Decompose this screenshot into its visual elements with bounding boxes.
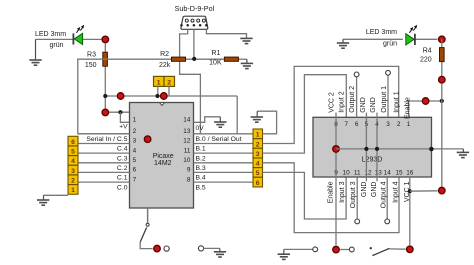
- resistor R3 150: [103, 52, 108, 66]
- wire Sub-D pin3 to junction: [193, 29, 195, 59]
- wire net B.4 to Input 3: [263, 172, 347, 219]
- wire Picaxe pin 8 B.5: [194, 181, 254, 183]
- node red dot VCC1 bottom: [407, 246, 414, 253]
- svg-text:Output 4: Output 4: [380, 181, 387, 208]
- svg-text:B.0 / Serial Out: B.0 / Serial Out: [196, 136, 242, 143]
- wire GND horizontal to ground: [336, 148, 463, 150]
- terminal switch S1: [164, 246, 169, 251]
- svg-text:13: 13: [183, 128, 191, 135]
- svg-text:C.0: C.0: [117, 184, 128, 191]
- node red dot rail mid: [439, 76, 446, 83]
- svg-text:8: 8: [187, 176, 191, 183]
- wire pin14 0V to ground: [194, 117, 221, 123]
- svg-text:L293D: L293D: [362, 157, 383, 164]
- svg-text:10: 10: [183, 157, 191, 164]
- svg-text:12: 12: [364, 170, 372, 177]
- ground bottom right side: [278, 254, 290, 259]
- resistor R1 10K: [224, 57, 238, 61]
- svg-text:R4: R4: [423, 47, 432, 54]
- ground at LED2: [337, 43, 349, 48]
- svg-text:2: 2: [133, 128, 137, 135]
- node red dot LED1/R3: [102, 36, 109, 43]
- wire Enable2 internal vertical pin8-pin9: [335, 117, 337, 245]
- svg-text:7: 7: [133, 176, 137, 183]
- svg-text:1: 1: [133, 117, 137, 124]
- wire Picaxe pin 6 C.1: [78, 171, 129, 173]
- svg-text:4: 4: [71, 158, 75, 165]
- svg-text:Enable: Enable: [328, 181, 335, 203]
- svg-text:0V: 0V: [196, 125, 205, 132]
- svg-text:+V: +V: [119, 124, 128, 131]
- junction GND pin4: [375, 147, 379, 151]
- wire +V bus: [105, 111, 147, 113]
- node red dot header bus left: [117, 93, 124, 100]
- svg-text:B.4: B.4: [196, 175, 206, 182]
- resistor R4 220: [440, 48, 445, 62]
- wire net B.1 to Input 1: [263, 66, 399, 143]
- svg-text:LED 3mm: LED 3mm: [35, 31, 66, 38]
- junction enable rail: [440, 99, 444, 103]
- IC U2 L293D body: [313, 117, 432, 177]
- switch S2 lever: [372, 248, 389, 255]
- wire VCC1 branch to rail: [410, 190, 438, 192]
- svg-text:C.4: C.4: [117, 146, 128, 153]
- connector SV1 left pin strip: [68, 136, 78, 194]
- svg-text:6: 6: [355, 121, 359, 128]
- svg-text:2: 2: [256, 141, 260, 148]
- wire GND internal vertical pin5-12: [365, 113, 367, 182]
- node red dot switch S1: [154, 245, 161, 252]
- wire bus R2/R1 row: [77, 58, 172, 60]
- svg-text:14: 14: [183, 117, 191, 124]
- pin numbers 8-1 top: [334, 121, 411, 128]
- wire header bus: [105, 95, 237, 97]
- wire switch S2 to VCC1 dot: [390, 248, 406, 250]
- ground GND net right: [457, 152, 469, 157]
- wire switch S1 to contact: [140, 242, 152, 249]
- svg-text:R2: R2: [160, 51, 169, 58]
- pin numbers 9-16 bottom: [334, 170, 414, 177]
- wire Picaxe pin 3 C.4: [78, 143, 129, 145]
- wire enable switch: [340, 249, 349, 251]
- svg-text:grün: grün: [49, 42, 63, 49]
- wire Picaxe pin 2 Serial In / C.5: [78, 133, 129, 135]
- svg-text:GND: GND: [361, 182, 368, 198]
- junction header bus R3 net: [103, 94, 107, 98]
- terminal switch S2 left: [349, 247, 354, 252]
- svg-text:Input 3: Input 3: [339, 181, 346, 203]
- junction VCC1 branch: [408, 189, 412, 193]
- svg-text:4: 4: [133, 147, 137, 154]
- svg-text:C.2: C.2: [117, 165, 128, 172]
- wire pin1 +V jog: [120, 112, 129, 122]
- junction GND chip edge: [429, 147, 434, 152]
- node red dot R3 bottom: [102, 109, 109, 116]
- wire Picaxe pin 12 B.1: [194, 143, 254, 145]
- wire Picaxe pin 10 B.3: [194, 162, 254, 164]
- svg-text:Sub-D-9-Pol: Sub-D-9-Pol: [175, 4, 215, 13]
- wire Output 1 terminal: [387, 75, 389, 117]
- terminal stub to ground center: [198, 246, 203, 251]
- ground right strip: [251, 117, 263, 122]
- wire Picaxe pin 11 B.2: [194, 152, 254, 154]
- wire Output 4 terminal: [386, 177, 388, 219]
- wire Picaxe pin 13 B.0 / Serial Out: [194, 133, 254, 135]
- svg-text:Serial In / C.5: Serial In / C.5: [86, 136, 127, 143]
- ground below LED1: [35, 39, 37, 59]
- junction header pin1: [155, 94, 159, 98]
- switch S1 wire from Picaxe: [147, 208, 149, 223]
- wire net B.2 to Input 2: [263, 75, 347, 153]
- svg-text:16: 16: [406, 170, 414, 177]
- junction GND pin5: [364, 147, 368, 151]
- svg-text:220: 220: [420, 56, 432, 63]
- svg-text:C.3: C.3: [117, 155, 128, 162]
- pin numbers 14-8: [183, 117, 191, 184]
- svg-text:5: 5: [256, 170, 260, 177]
- svg-text:14: 14: [384, 170, 392, 177]
- svg-text:22k: 22k: [159, 62, 171, 69]
- wire internal vertical to switch: [147, 112, 149, 223]
- svg-text:1: 1: [407, 121, 411, 128]
- node red dot enable: [422, 98, 429, 105]
- wire Sub-D pin2 serial route: [180, 29, 201, 134]
- junction +V pin1: [118, 110, 122, 114]
- svg-text:6: 6: [71, 139, 75, 146]
- wire Picaxe pin 9 B.4: [194, 171, 254, 173]
- svg-text:Input 4: Input 4: [392, 181, 399, 203]
- svg-text:VCC 2: VCC 2: [328, 92, 335, 113]
- svg-text:1: 1: [256, 132, 260, 139]
- wire left strip pin1 to ground: [44, 194, 69, 196]
- ground bottom center: [214, 252, 226, 257]
- switch S2 pivot dot: [370, 247, 372, 249]
- svg-text:GND: GND: [370, 97, 377, 113]
- node red dot enable switch: [333, 246, 340, 253]
- svg-text:Input 2: Input 2: [339, 91, 346, 113]
- wire net B.3 to Input 4: [263, 163, 400, 233]
- wire header bus drop to B.0: [236, 96, 238, 134]
- wire ground to terminal: [284, 248, 313, 250]
- svg-text:B.3: B.3: [196, 165, 206, 172]
- svg-text:11: 11: [184, 147, 191, 154]
- wire header pin2 drop: [168, 86, 170, 96]
- wire left vertical to serial in: [78, 59, 130, 134]
- ground at Sub-D: [240, 38, 252, 43]
- svg-text:grün: grün: [383, 41, 397, 48]
- svg-text:13: 13: [375, 170, 383, 177]
- svg-text:3: 3: [386, 121, 390, 128]
- ground 0V: [214, 122, 226, 127]
- svg-text:2: 2: [397, 121, 401, 128]
- svg-text:B.5: B.5: [196, 184, 206, 191]
- wire Picaxe pin 7 C.0: [78, 181, 129, 183]
- svg-text:14M2: 14M2: [154, 160, 172, 167]
- wire R3 vertical net: [104, 43, 106, 53]
- svg-text:4: 4: [256, 161, 260, 168]
- svg-text:15: 15: [395, 170, 403, 177]
- svg-text:GND: GND: [360, 97, 367, 113]
- svg-text:5: 5: [71, 149, 75, 156]
- IC U1 Picaxe 14M2 body: [130, 103, 194, 209]
- wire GND internal vertical pin4-13: [376, 113, 378, 182]
- svg-text:1: 1: [157, 80, 161, 87]
- wire Picaxe pin 4 C.3: [78, 152, 129, 154]
- svg-text:R3: R3: [87, 51, 96, 58]
- svg-text:9: 9: [187, 167, 191, 174]
- svg-text:Output 3: Output 3: [350, 181, 357, 208]
- svg-text:11: 11: [354, 170, 361, 177]
- svg-text:Picaxe: Picaxe: [153, 153, 174, 160]
- wire header pin1 drop: [157, 86, 159, 96]
- svg-text:5: 5: [133, 157, 137, 164]
- resistor R2 22k: [172, 57, 186, 61]
- wire Sub-D pin5 to ground: [206, 29, 246, 38]
- svg-text:Enable: Enable: [404, 97, 411, 119]
- svg-text:150: 150: [85, 62, 97, 69]
- svg-text:10K: 10K: [209, 60, 222, 67]
- svg-text:VCC 1: VCC 1: [404, 181, 411, 202]
- node red dot internal: [144, 136, 151, 143]
- LED D1 green LED 3mm: [73, 25, 84, 45]
- svg-text:12: 12: [183, 138, 191, 145]
- svg-text:1: 1: [71, 187, 75, 194]
- svg-text:B.1: B.1: [196, 146, 206, 153]
- svg-text:7: 7: [345, 121, 349, 128]
- svg-text:6: 6: [133, 167, 137, 174]
- wire LED1 net: [36, 38, 74, 40]
- svg-text:GND: GND: [371, 182, 378, 198]
- svg-text:C.1: C.1: [117, 175, 128, 182]
- wire VCC2 stub: [335, 113, 337, 118]
- svg-text:Input 1: Input 1: [393, 91, 400, 113]
- wire rail R4: [441, 39, 443, 48]
- switch S1 lever: [140, 228, 146, 243]
- wire Output 3 terminal: [356, 177, 358, 219]
- svg-text:R1: R1: [211, 50, 220, 57]
- svg-text:B.2: B.2: [196, 155, 206, 162]
- svg-text:3: 3: [133, 138, 137, 145]
- wire LED2 net: [343, 38, 403, 40]
- svg-text:2: 2: [167, 80, 171, 87]
- svg-text:Output 1: Output 1: [381, 86, 388, 113]
- node red dot LED2: [439, 36, 446, 43]
- LED D2 green LED 3mm right: [406, 25, 417, 45]
- pin numbers 1-7: [133, 117, 137, 184]
- wire Picaxe pin 5 C.2: [78, 162, 129, 164]
- wire Enable pin1 to rail: [409, 101, 442, 117]
- wire Output 2 terminal: [356, 77, 358, 118]
- svg-text:6: 6: [256, 180, 260, 187]
- terminal bottom right gnd: [313, 247, 318, 252]
- connector header 1 2: [154, 76, 175, 86]
- svg-text:LED 3mm: LED 3mm: [366, 29, 397, 36]
- connector SV2 right pin strip: [253, 129, 263, 187]
- node red dot rail bottom: [439, 187, 446, 194]
- node red dot header bus right: [161, 93, 168, 100]
- junction on bus: [192, 57, 196, 61]
- svg-text:3: 3: [256, 151, 260, 158]
- ground left strip: [37, 200, 49, 205]
- svg-text:Output 2: Output 2: [349, 86, 356, 113]
- node red dot L293D internal: [333, 146, 340, 153]
- ground right of R1: [246, 59, 248, 63]
- svg-text:10: 10: [343, 170, 351, 177]
- wire right strip pin1 to ground: [257, 111, 276, 134]
- connector Sub-D-9-Pol: [181, 16, 208, 29]
- svg-text:3: 3: [71, 168, 75, 175]
- svg-text:2: 2: [71, 178, 75, 185]
- wire VCC1 pin16 down: [409, 177, 411, 245]
